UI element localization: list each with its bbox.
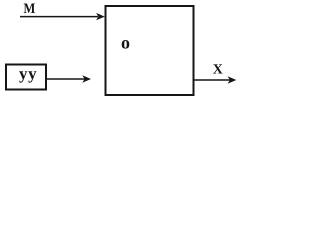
svg-text:Х: Х [213, 62, 223, 77]
arrowhead M [96, 13, 105, 20]
svg-text:уу: уу [19, 64, 37, 83]
block UU (control unit) [6, 65, 46, 90]
svg-text:о: о [121, 33, 130, 53]
wire M input arrow [20, 16, 98, 18]
block O (object) [106, 6, 194, 95]
wire UU to O arrow [47, 78, 86, 80]
arrowhead UU [82, 75, 91, 82]
wire X output arrow [194, 79, 231, 81]
svg-text:М: М [24, 1, 36, 17]
arrowhead X [228, 76, 237, 83]
